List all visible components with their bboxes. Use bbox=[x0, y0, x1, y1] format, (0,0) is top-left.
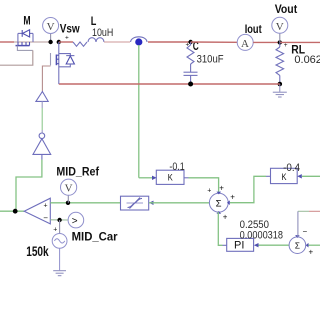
op-amp comparator (mirrored) bbox=[24, 198, 50, 224]
ammeter Iout bbox=[237, 34, 253, 50]
svg-text:V: V bbox=[276, 21, 284, 33]
svg-text:Vsw: Vsw bbox=[60, 22, 81, 36]
wire: + input row to limiter bbox=[50, 202, 120, 204]
junction node MID_Ref tap bbox=[66, 201, 70, 205]
wire: M gate loop to left edge bbox=[0, 50, 33, 65]
svg-text:K: K bbox=[168, 173, 174, 184]
svg-text:+: + bbox=[223, 212, 228, 221]
resistor RL bbox=[276, 42, 284, 84]
svg-text:Σ: Σ bbox=[216, 198, 222, 209]
voltmeter Vout bbox=[272, 17, 288, 42]
svg-text:M: M bbox=[23, 13, 30, 27]
capacitor C with ESR bbox=[184, 42, 198, 84]
svg-text:V: V bbox=[65, 183, 73, 195]
wire: S2 right input from edge bbox=[309, 244, 320, 246]
svg-text:Σ: Σ bbox=[295, 240, 300, 250]
wire: K1 out to S1 top bbox=[189, 178, 219, 193]
wire: Q2 gate to buffer bbox=[42, 66, 50, 92]
wire: K2 out stub bbox=[266, 175, 271, 177]
wire: PI out stub bbox=[223, 244, 227, 246]
wire: rail inductor to sensor bbox=[104, 41, 130, 43]
transistor M (high-side MOSFET, horizontal) bbox=[14, 30, 51, 51]
wire: K1 out stub bbox=[184, 177, 189, 179]
junction node C bottom bbox=[188, 82, 193, 87]
svg-text:+: + bbox=[230, 192, 235, 201]
wire: inverter to buffer (green) bbox=[41, 101, 43, 133]
inverter bbox=[33, 133, 51, 160]
wire: rail switch node to inductor bbox=[59, 41, 73, 43]
wire: rail ammeter to Vout node bbox=[253, 41, 280, 43]
summing junction S1 bbox=[209, 192, 229, 214]
wire: sensor drop into K1 bbox=[139, 177, 152, 179]
svg-text:0.0625: 0.0625 bbox=[294, 54, 320, 66]
wire: rail Vout node to right edge bbox=[280, 41, 320, 43]
junction node carrier bbox=[57, 218, 61, 222]
junction node Vout bbox=[278, 40, 282, 44]
voltmeter MID_Ref bbox=[61, 179, 77, 203]
svg-text:−: − bbox=[43, 214, 48, 223]
wire: comparator output up to inverter (green) bbox=[16, 160, 42, 212]
ground: carrier source bbox=[53, 271, 66, 276]
PI controller bbox=[227, 238, 259, 251]
buffer gate driver bbox=[36, 92, 48, 102]
svg-text:310uF: 310uF bbox=[197, 53, 224, 65]
diode D2 freewheel bbox=[59, 54, 75, 67]
inductor L (ESR zigzag + coil) bbox=[73, 38, 104, 47]
svg-text:+: + bbox=[44, 202, 48, 209]
junction node comparator output bbox=[13, 209, 18, 214]
wire: K2 out to S1 right bbox=[230, 176, 266, 202]
wire: comparator output to left edge bbox=[0, 210, 24, 212]
svg-text:+: + bbox=[284, 42, 288, 49]
gain block K2 bbox=[271, 168, 302, 183]
current sensor flag bbox=[131, 37, 191, 46]
junction node C top bbox=[188, 40, 192, 44]
probe MID_Car bbox=[68, 212, 84, 228]
svg-text:L: L bbox=[91, 14, 97, 28]
svg-text:C: C bbox=[193, 39, 199, 53]
voltmeter Vsw bbox=[43, 18, 69, 43]
wire: bottom return rail bbox=[59, 83, 280, 85]
svg-text:Vout: Vout bbox=[275, 2, 298, 16]
svg-text:A: A bbox=[241, 38, 249, 50]
svg-text:10uH: 10uH bbox=[92, 27, 113, 39]
wire: Vout sense from right edge to S2 top bbox=[298, 211, 320, 237]
junction node Vsw tap bbox=[48, 40, 52, 44]
svg-text:MID_Car: MID_Car bbox=[72, 229, 118, 243]
wire: rail C node to ammeter bbox=[191, 41, 238, 43]
wire: inductor-current sense drop (green) bbox=[138, 45, 140, 178]
svg-text:-0.4: -0.4 bbox=[283, 162, 300, 174]
transistor Q2 (sync FET, vertical) bbox=[51, 42, 59, 84]
svg-text:-0.1: -0.1 bbox=[169, 161, 184, 173]
svg-text:V: V bbox=[47, 21, 55, 33]
wire: comparator minus input bbox=[50, 219, 68, 221]
ground: output return bbox=[273, 84, 287, 97]
wire: top rail from left edge bbox=[0, 41, 14, 43]
junction node RL bottom bbox=[278, 82, 283, 87]
summing junction S2 bbox=[289, 235, 308, 253]
svg-text:+: + bbox=[309, 248, 314, 257]
svg-text:Iout: Iout bbox=[245, 22, 262, 36]
svg-text:>: > bbox=[72, 216, 78, 227]
wire: S1 output to limiter bbox=[149, 202, 210, 204]
wire: S1 bottom to PI out bbox=[218, 212, 222, 245]
source Vtri 150k bbox=[52, 234, 67, 271]
svg-text:+: + bbox=[207, 188, 211, 195]
junction node switch bbox=[57, 40, 61, 44]
wire: carrier node to source bbox=[59, 220, 61, 234]
wire: K2 input from right edge bbox=[302, 175, 320, 177]
svg-text:+: + bbox=[53, 226, 57, 233]
svg-text:−: − bbox=[303, 227, 308, 236]
gain block K1 bbox=[152, 170, 184, 184]
svg-text:+: + bbox=[219, 183, 224, 192]
svg-text:MID_Ref: MID_Ref bbox=[56, 164, 99, 178]
limiter block bbox=[121, 196, 154, 210]
svg-text:150k: 150k bbox=[26, 244, 49, 259]
svg-text:0.0000318: 0.0000318 bbox=[240, 229, 283, 241]
wire: S2 out to PI input bbox=[259, 244, 290, 246]
